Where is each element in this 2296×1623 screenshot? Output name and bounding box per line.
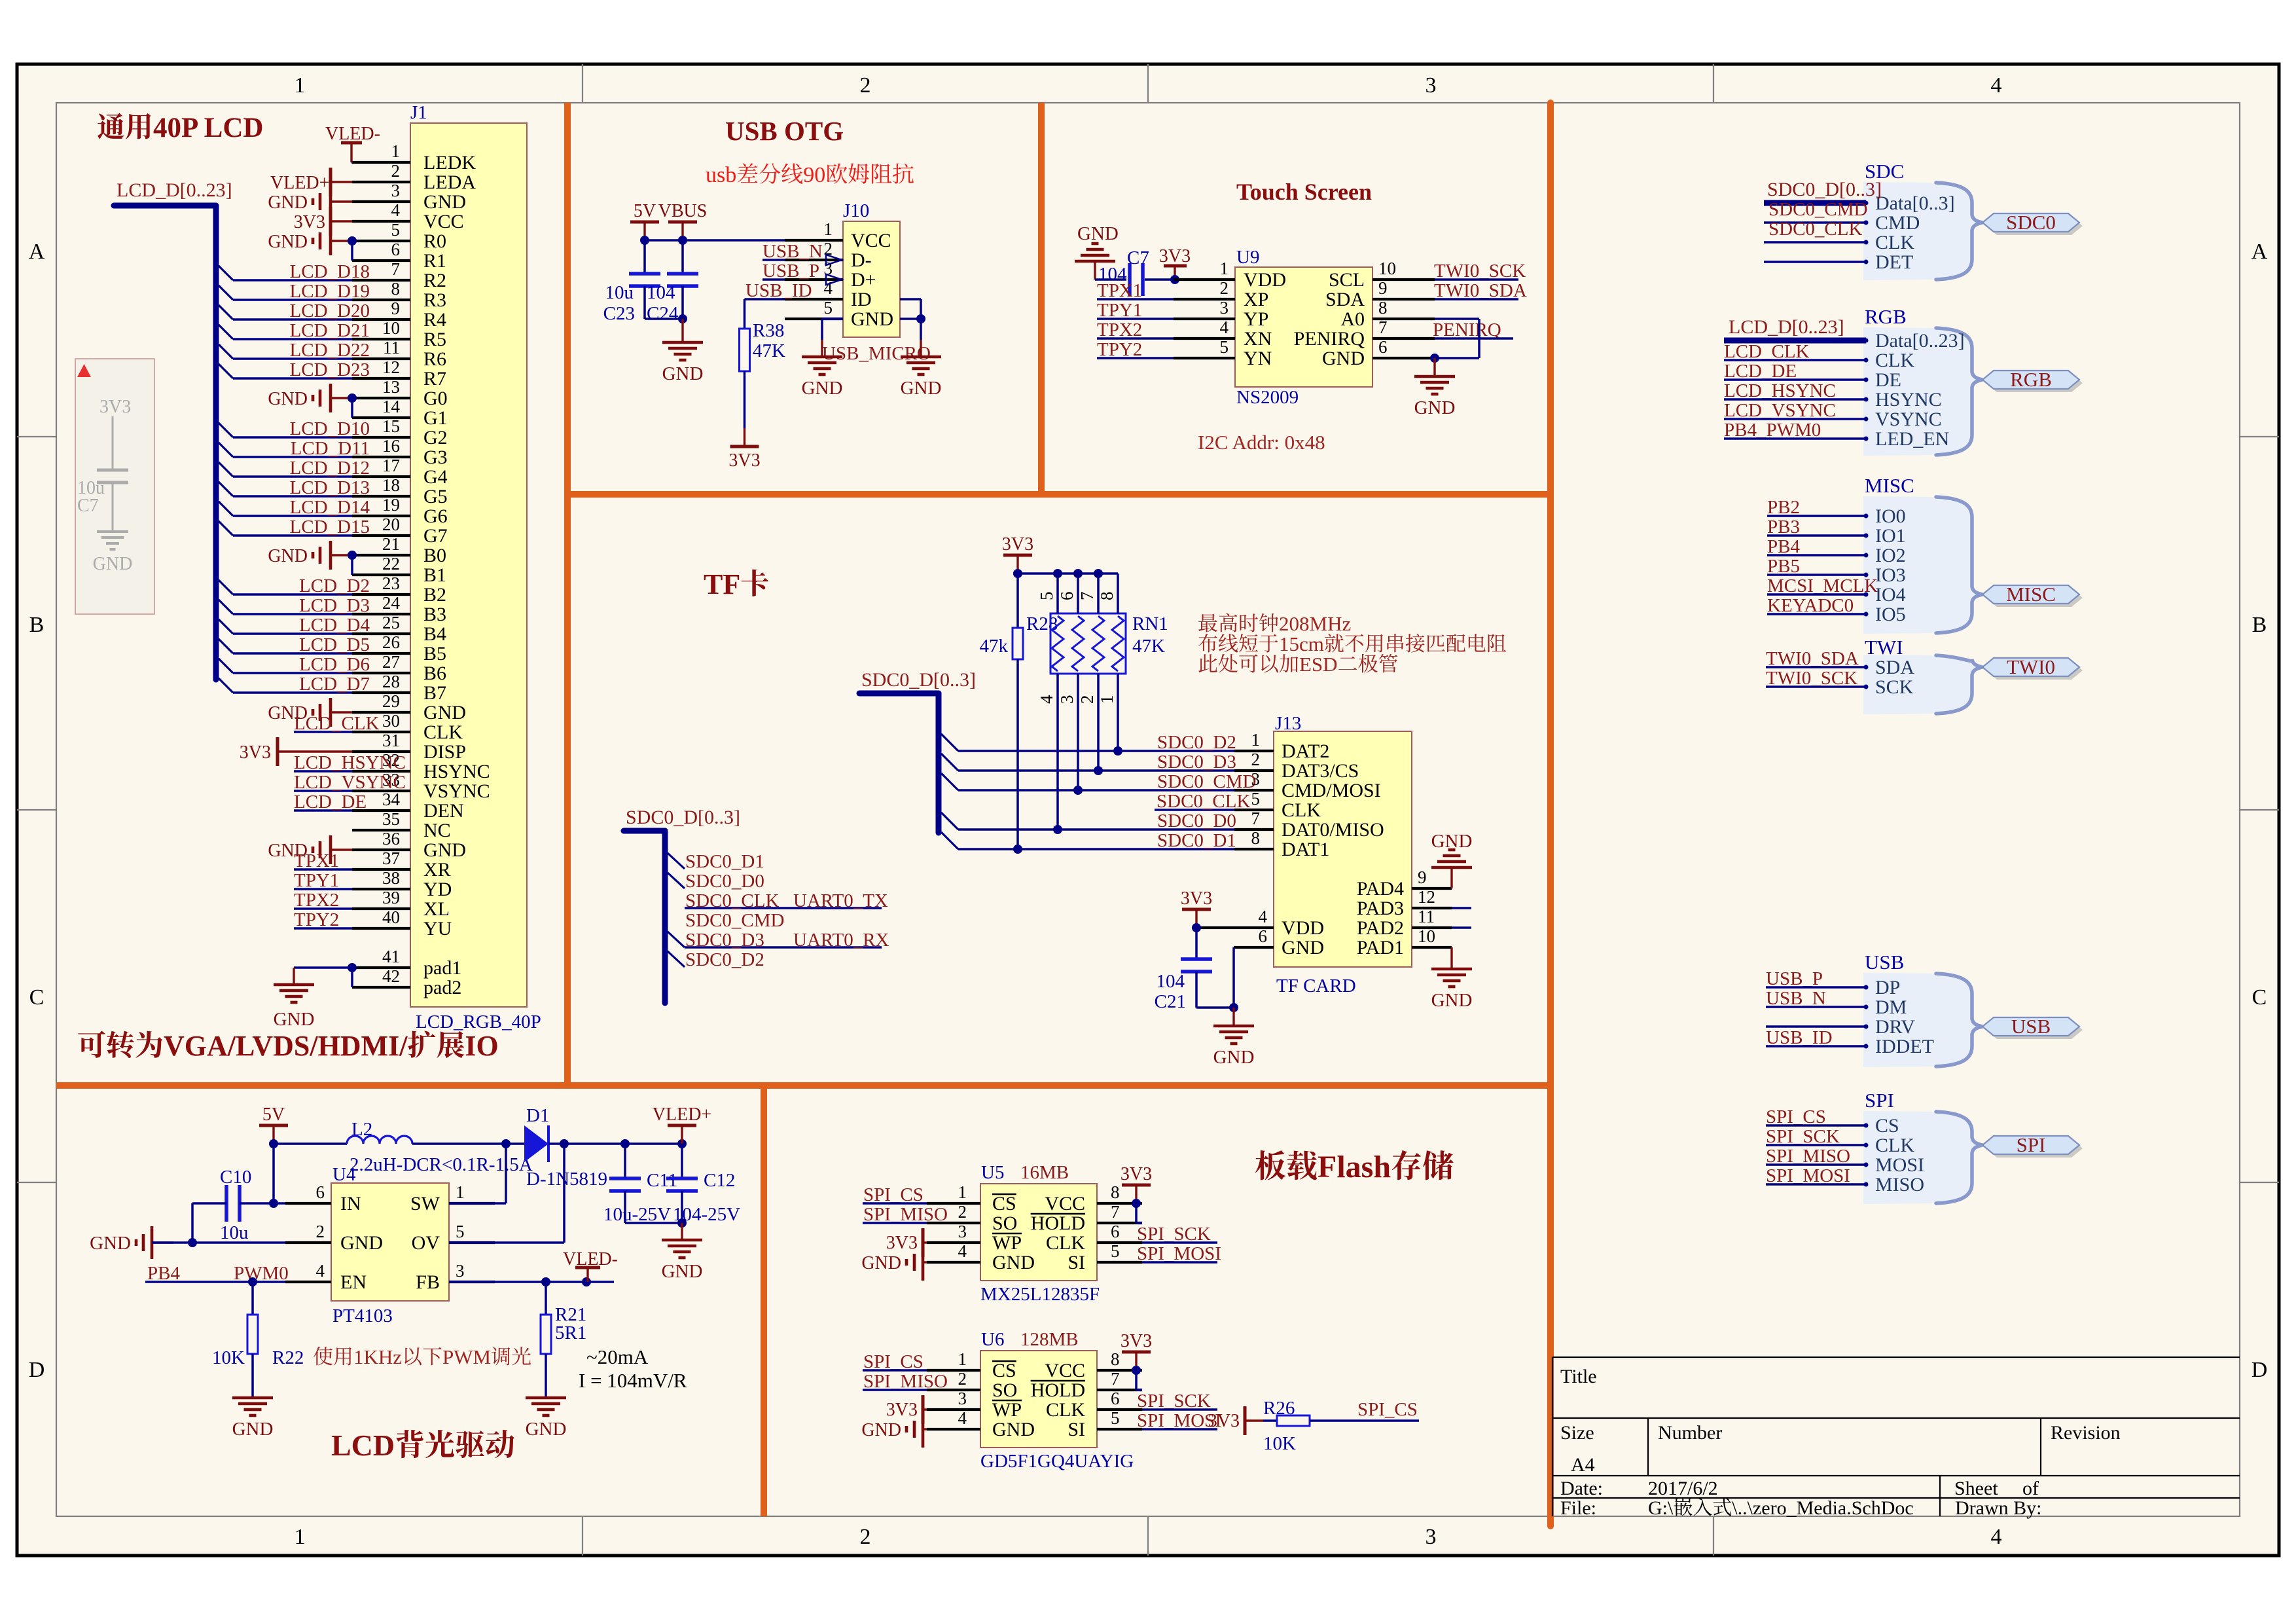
- svg-text:8: 8: [1251, 828, 1261, 848]
- svg-text:1: 1: [824, 219, 833, 239]
- svg-text:R7: R7: [423, 368, 446, 390]
- svg-text:VSYNC: VSYNC: [1875, 409, 1942, 430]
- junction: [1073, 569, 1083, 578]
- wire: [745, 298, 785, 301]
- svg-text:LCD_RGB_40P: LCD_RGB_40P: [416, 1012, 541, 1032]
- wire: [545, 1282, 547, 1315]
- wire: [1435, 357, 1479, 359]
- wire: [233, 318, 352, 321]
- flash memory U6: [980, 1351, 1097, 1448]
- svg-text:DISP: DISP: [423, 741, 466, 763]
- pin 26: [352, 652, 410, 655]
- svg-text:5: 5: [1111, 1241, 1120, 1261]
- wire: [545, 1354, 547, 1398]
- svg-text:41: 41: [382, 947, 400, 966]
- svg-text:U6: U6: [981, 1329, 1004, 1350]
- svg-text:CMD/MOSI: CMD/MOSI: [1282, 780, 1381, 801]
- pin 6: [1234, 946, 1274, 949]
- svg-text:GND: GND: [268, 192, 308, 213]
- wire: [1145, 278, 1174, 281]
- ground: [1450, 947, 1452, 969]
- bus entry: [219, 443, 233, 457]
- svg-text:G4: G4: [423, 466, 448, 488]
- svg-text:30: 30: [382, 711, 400, 731]
- svg-text:GND: GND: [423, 191, 466, 213]
- wire: [1135, 1370, 1138, 1390]
- wire: [1766, 1144, 1866, 1146]
- pin 13: [352, 397, 410, 399]
- svg-text:SO: SO: [992, 1213, 1017, 1234]
- svg-text:28: 28: [382, 672, 400, 691]
- svg-text:PAD3: PAD3: [1357, 898, 1404, 919]
- wire: [1195, 928, 1198, 959]
- wire: [1195, 972, 1198, 1008]
- svg-text:TWI0_SDA: TWI0_SDA: [1766, 648, 1859, 669]
- svg-text:2: 2: [316, 1222, 325, 1241]
- svg-text:C11: C11: [647, 1170, 677, 1191]
- bus entry: [219, 619, 233, 634]
- svg-text:C: C: [29, 985, 45, 1010]
- svg-text:RGB: RGB: [1865, 305, 1907, 328]
- svg-text:U4: U4: [332, 1164, 356, 1185]
- svg-text:3: 3: [391, 181, 401, 200]
- wire: [192, 1202, 226, 1205]
- wire: [1077, 574, 1079, 613]
- pin 10: [352, 338, 410, 340]
- wire: [145, 1281, 285, 1283]
- wire: [191, 1203, 194, 1243]
- svg-text:Data[0..3]: Data[0..3]: [1875, 192, 1955, 214]
- svg-text:4: 4: [316, 1261, 325, 1281]
- svg-text:YU: YU: [423, 918, 452, 939]
- svg-text:TPX1: TPX1: [294, 850, 339, 871]
- svg-text:12: 12: [382, 357, 400, 377]
- svg-text:SDC0_D0: SDC0_D0: [685, 871, 764, 892]
- ground: [545, 1396, 547, 1398]
- svg-text:B6: B6: [423, 663, 446, 684]
- wire: [958, 789, 1234, 792]
- svg-text:LCD_D20: LCD_D20: [290, 301, 370, 321]
- sheet-entry panel USB: [1863, 973, 1982, 1067]
- svg-text:7: 7: [1111, 1369, 1120, 1389]
- wire: [233, 613, 352, 615]
- wire: [625, 1222, 682, 1224]
- pin 40: [352, 927, 410, 930]
- svg-text:GND: GND: [901, 378, 942, 399]
- svg-text:VDD: VDD: [1244, 269, 1286, 291]
- svg-text:4: 4: [1991, 73, 2002, 98]
- svg-text:FB: FB: [416, 1271, 440, 1293]
- junction: [348, 551, 357, 560]
- bus entry: [219, 344, 233, 359]
- wire: [1764, 261, 1866, 263]
- bus wire: [662, 831, 668, 1003]
- svg-text:NC: NC: [423, 820, 451, 841]
- wire: [1056, 574, 1059, 613]
- wire: [1097, 674, 1100, 771]
- pin 3: [785, 278, 843, 281]
- wire: [1056, 674, 1059, 830]
- pin 3: [927, 1241, 980, 1244]
- junction: [1229, 1003, 1238, 1012]
- svg-text:PB2: PB2: [1767, 497, 1800, 518]
- svg-text:4: 4: [958, 1241, 967, 1261]
- svg-text:SPI_MISO: SPI_MISO: [863, 1371, 948, 1392]
- svg-text:IN: IN: [340, 1193, 361, 1214]
- wire: [294, 888, 352, 890]
- wire: [152, 1241, 285, 1244]
- svg-text:5V: 5V: [262, 1104, 285, 1125]
- ground: [681, 319, 683, 342]
- svg-text:7: 7: [1077, 592, 1097, 601]
- junction: [1132, 1366, 1141, 1375]
- connector J10: [843, 221, 900, 337]
- wire: [1117, 674, 1119, 751]
- svg-text:SO: SO: [992, 1379, 1017, 1401]
- wire: [294, 731, 352, 733]
- svg-text:GND: GND: [93, 554, 133, 574]
- wire: [1452, 907, 1471, 909]
- svg-text:G3: G3: [423, 447, 448, 468]
- pin 18: [352, 495, 410, 498]
- wire: [1766, 685, 1866, 688]
- svg-text:G1: G1: [423, 407, 448, 429]
- wire: [233, 299, 352, 301]
- svg-text:VDD: VDD: [1282, 917, 1324, 939]
- svg-text:7: 7: [1378, 318, 1388, 337]
- svg-text:SCK: SCK: [1875, 676, 1914, 698]
- wire: [1724, 437, 1866, 440]
- svg-text:104: 104: [1157, 971, 1185, 992]
- svg-text:B0: B0: [423, 545, 446, 566]
- wire: [1155, 809, 1234, 811]
- svg-text:IO2: IO2: [1875, 545, 1906, 566]
- wire: [1766, 1025, 1866, 1028]
- junction: [560, 1139, 569, 1148]
- bus wire: [1764, 200, 1866, 206]
- svg-text:40: 40: [382, 907, 400, 927]
- svg-text:LCD_D18: LCD_D18: [290, 261, 370, 282]
- svg-text:GND: GND: [268, 546, 308, 566]
- svg-text:LCD_D5: LCD_D5: [299, 634, 370, 655]
- svg-text:SDC0_CMD: SDC0_CMD: [1768, 199, 1868, 220]
- wire: [1767, 554, 1866, 556]
- bus entry: [941, 773, 958, 790]
- wire: [240, 1202, 285, 1205]
- wire: [351, 968, 353, 987]
- svg-text:16: 16: [382, 436, 400, 456]
- wire: [1478, 319, 1480, 358]
- pin 5: [785, 318, 843, 320]
- wire: [1767, 613, 1866, 615]
- wire: [643, 286, 646, 319]
- wire: [233, 691, 352, 694]
- svg-text:U5: U5: [981, 1162, 1004, 1183]
- wire: [294, 966, 352, 969]
- wire: [351, 555, 353, 575]
- wire: [351, 259, 353, 262]
- wire: [1097, 337, 1174, 340]
- junction: [348, 963, 357, 972]
- svg-text:8: 8: [391, 279, 401, 299]
- bus entry: [219, 482, 233, 496]
- svg-text:DEN: DEN: [423, 800, 464, 822]
- svg-text:PWM0: PWM0: [234, 1263, 289, 1284]
- bus entry: [941, 812, 958, 830]
- svg-text:3V3: 3V3: [294, 212, 325, 232]
- svg-text:23: 23: [382, 574, 400, 593]
- svg-text:LEDK: LEDK: [423, 152, 476, 173]
- svg-text:VGA/LVDS/HDMI/: VGA/LVDS/HDMI/: [164, 1030, 408, 1062]
- svg-text:3V3: 3V3: [99, 397, 131, 417]
- svg-text:3: 3: [1220, 298, 1229, 318]
- svg-text:LCD: LCD: [331, 1429, 395, 1462]
- svg-text:J10: J10: [843, 200, 869, 221]
- svg-text:D1: D1: [526, 1105, 549, 1126]
- svg-text:IDDET: IDDET: [1875, 1036, 1934, 1057]
- svg-text:A: A: [29, 240, 45, 264]
- bus entry: [941, 754, 958, 771]
- svg-text:7: 7: [1111, 1202, 1120, 1222]
- svg-text:VCC: VCC: [851, 230, 891, 251]
- svg-text:10: 10: [1378, 259, 1396, 278]
- wire: [863, 1389, 927, 1391]
- wire: [1142, 1261, 1217, 1264]
- svg-text:B5: B5: [423, 643, 446, 665]
- svg-text:LCD_D11: LCD_D11: [291, 438, 370, 459]
- signal direction arrow: [826, 274, 842, 285]
- flash memory U5: [980, 1184, 1097, 1281]
- svg-text:File:: File:: [1560, 1497, 1596, 1519]
- annotation 布线短于15cm: [1198, 634, 1217, 653]
- pin 6: [1097, 1241, 1142, 1244]
- svg-text:9: 9: [1378, 278, 1388, 298]
- svg-text:B2: B2: [423, 584, 446, 606]
- svg-text:PENIRQ: PENIRQ: [1433, 319, 1501, 340]
- wire: [1764, 241, 1866, 244]
- svg-text:LCD_D21: LCD_D21: [290, 320, 370, 341]
- wire: [1435, 318, 1479, 320]
- power 3V3: [1195, 909, 1197, 928]
- svg-text:VLED-: VLED-: [325, 124, 380, 144]
- ground: [821, 340, 823, 357]
- wire: [449, 1202, 506, 1205]
- wire: [1766, 986, 1866, 989]
- svg-text:SPI_SCK: SPI_SCK: [1137, 1224, 1211, 1245]
- bus wire: [859, 691, 939, 697]
- svg-text:R0: R0: [423, 230, 446, 252]
- svg-text:LCD_D19: LCD_D19: [290, 281, 370, 302]
- junction: [677, 1139, 687, 1148]
- svg-text:MISO: MISO: [1875, 1174, 1924, 1195]
- ground at J1 pads: [293, 968, 295, 985]
- svg-text:SPI_MISO: SPI_MISO: [863, 1204, 948, 1225]
- pin 39: [352, 907, 410, 910]
- wire: [1310, 1419, 1419, 1422]
- junction: [677, 1218, 687, 1228]
- svg-text:4: 4: [1259, 907, 1268, 926]
- wire: [233, 672, 352, 674]
- wire: [233, 357, 352, 360]
- svg-text:DAT2: DAT2: [1282, 740, 1329, 762]
- pin 22: [352, 574, 410, 576]
- junction: [1053, 569, 1062, 578]
- svg-text:HOLD: HOLD: [1031, 1379, 1085, 1401]
- bus entry: [219, 325, 233, 339]
- svg-text:GND: GND: [802, 378, 843, 399]
- svg-text:8: 8: [1378, 298, 1388, 318]
- svg-text:19: 19: [382, 495, 400, 515]
- svg-text:LCD_D[0..23]: LCD_D[0..23]: [117, 179, 232, 201]
- pin 38: [352, 888, 410, 890]
- wire: [958, 848, 1234, 850]
- pin 36: [352, 848, 410, 851]
- svg-text:1: 1: [1097, 695, 1117, 704]
- bus entry: [219, 639, 233, 653]
- svg-text:MISC: MISC: [1865, 474, 1914, 497]
- ground at U5 GND: [922, 1244, 925, 1281]
- section note 可转为VGA/LVDS/HDMI/扩展IO: [78, 1031, 105, 1058]
- wire: [294, 809, 352, 812]
- wire: [294, 927, 352, 930]
- bus entry: [941, 734, 958, 751]
- zone divider ticks: [582, 64, 583, 103]
- svg-text:LCD_D12: LCD_D12: [290, 458, 370, 479]
- pin 12: [1412, 907, 1452, 909]
- svg-text:USB: USB: [2011, 1015, 2051, 1038]
- svg-text:ID: ID: [851, 289, 872, 310]
- svg-text:8: 8: [1097, 592, 1117, 601]
- svg-text:LCD_HSYNC: LCD_HSYNC: [294, 752, 406, 773]
- svg-text:37: 37: [382, 848, 400, 868]
- junction: [1013, 569, 1022, 578]
- wire: [1135, 1203, 1138, 1223]
- svg-text:usb: usb: [706, 163, 736, 187]
- svg-text:SDC0_D3: SDC0_D3: [1157, 752, 1236, 773]
- pin 4: [1174, 337, 1235, 340]
- junction: [678, 314, 687, 323]
- svg-text:7: 7: [391, 259, 401, 279]
- wire: [681, 1144, 683, 1178]
- power 3V3: [1135, 1185, 1137, 1203]
- wire: [233, 279, 352, 282]
- svg-text:TPX1: TPX1: [1097, 280, 1142, 301]
- junction: [640, 236, 649, 245]
- bus entry: [219, 501, 233, 516]
- junction: [1013, 845, 1022, 854]
- svg-text:DET: DET: [1875, 251, 1913, 273]
- pin 2: [352, 181, 410, 183]
- svg-text:16MB: 16MB: [1020, 1162, 1069, 1183]
- bus entry: [219, 423, 233, 437]
- section divider line: [564, 103, 571, 1085]
- svg-text:LCD_D7: LCD_D7: [299, 674, 370, 695]
- svg-text:5: 5: [1037, 592, 1056, 601]
- svg-text:HOLD: HOLD: [1031, 1213, 1085, 1234]
- svg-text:6: 6: [1259, 926, 1268, 946]
- svg-text:LCD_D14: LCD_D14: [290, 497, 370, 518]
- svg-text:208MHz: 208MHz: [1279, 612, 1351, 635]
- svg-text:2: 2: [1220, 278, 1229, 298]
- svg-text:USB OTG: USB OTG: [725, 116, 844, 146]
- sheet-entry panel TWI: [1863, 655, 1982, 714]
- svg-text:6: 6: [316, 1182, 325, 1202]
- wire: [900, 318, 921, 320]
- wire: [863, 1369, 927, 1372]
- svg-text:C7: C7: [77, 496, 99, 516]
- svg-text:R2: R2: [423, 270, 446, 291]
- wire: [1097, 574, 1100, 613]
- section divider line: [56, 1082, 1551, 1089]
- svg-text:pad1: pad1: [423, 957, 461, 979]
- bus wire: [213, 206, 219, 680]
- svg-text:PB5: PB5: [1767, 556, 1800, 577]
- svg-text:5: 5: [456, 1222, 465, 1241]
- pin 7: [1372, 337, 1435, 340]
- svg-text:C21: C21: [1155, 991, 1186, 1012]
- power 5V: [272, 1125, 274, 1144]
- svg-text:CLK: CLK: [423, 721, 463, 743]
- wire: [548, 1142, 682, 1145]
- svg-text:LCD_HSYNC: LCD_HSYNC: [1724, 380, 1836, 401]
- svg-text:4: 4: [1220, 318, 1229, 337]
- svg-text:SDC0_D[0..3]: SDC0_D[0..3]: [1767, 179, 1882, 200]
- svg-text:DAT0/MISO: DAT0/MISO: [1282, 819, 1384, 841]
- pin 2: [285, 1241, 331, 1244]
- svg-text:LEDA: LEDA: [423, 172, 476, 193]
- bus entry: [219, 266, 233, 280]
- svg-text:11: 11: [383, 338, 400, 357]
- svg-text:pad2: pad2: [423, 977, 461, 998]
- junction: [1094, 766, 1103, 775]
- svg-text:20: 20: [382, 515, 400, 534]
- svg-text:104: 104: [647, 282, 675, 303]
- svg-text:TWI0_SDA: TWI0_SDA: [1434, 280, 1527, 301]
- svg-text:26: 26: [382, 632, 400, 652]
- wire: [294, 907, 352, 910]
- pin 1: [449, 1202, 495, 1205]
- svg-text:LCD_D[0..23]: LCD_D[0..23]: [1729, 316, 1844, 338]
- port RGB: [1986, 374, 2083, 392]
- svg-text:5: 5: [1220, 337, 1229, 357]
- svg-text:SW: SW: [410, 1193, 440, 1214]
- svg-text:SDC0_D1: SDC0_D1: [1157, 830, 1236, 851]
- svg-text:TWI0_SCK: TWI0_SCK: [1766, 668, 1857, 689]
- wire: [563, 1144, 565, 1243]
- pin: [1234, 769, 1274, 772]
- svg-text:of: of: [2022, 1478, 2039, 1499]
- svg-text:SDC0_D[0..3]: SDC0_D[0..3]: [626, 807, 740, 828]
- svg-text:IO5: IO5: [1875, 604, 1906, 625]
- ground at U6 GND: [922, 1411, 925, 1448]
- bus entry: [219, 600, 233, 614]
- svg-text:42: 42: [382, 966, 400, 986]
- wire: [1097, 357, 1174, 359]
- svg-text:PENIRQ: PENIRQ: [1294, 328, 1365, 350]
- junction: [620, 1139, 630, 1148]
- wire: [1766, 1163, 1866, 1166]
- pin 21: [352, 554, 410, 556]
- svg-text:TPY2: TPY2: [1097, 339, 1142, 360]
- wire: [1767, 534, 1866, 537]
- connector J1: [410, 123, 527, 1007]
- wire: [624, 1191, 626, 1223]
- pin 6: [1097, 1408, 1142, 1411]
- svg-text:D: D: [2251, 1358, 2268, 1382]
- svg-text:6: 6: [1111, 1389, 1120, 1408]
- svg-text:SPI_MISO: SPI_MISO: [1766, 1146, 1850, 1167]
- svg-text:3: 3: [1426, 1525, 1437, 1549]
